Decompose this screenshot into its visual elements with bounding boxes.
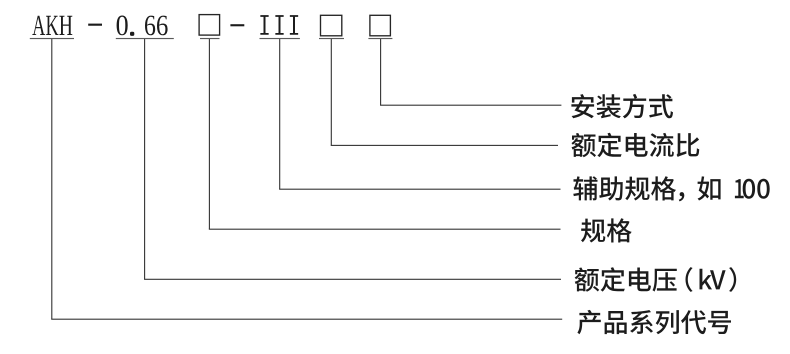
text III glyph I3 — [290, 15, 298, 35]
box 2 (current-ratio placeholder) — [321, 15, 342, 36]
text III glyph I1 — [260, 15, 268, 35]
underline under box 3 — [368, 38, 392, 39]
label text 辅助规格，如 100 — [573, 176, 769, 201]
underline under III — [260, 38, 300, 39]
underline under AKH — [30, 38, 74, 39]
wire horizontal to 安装方式 — [380, 105, 561, 106]
label text 安装方式 — [571, 94, 673, 119]
wire vertical from III — [279, 39, 280, 189]
decimal point of 0.66 — [130, 32, 134, 36]
wire horizontal to 额定电流比 — [331, 145, 558, 146]
label text 额定电流比 — [571, 133, 699, 158]
text AKH letter A — [32, 16, 45, 35]
hyphen between AKH and 0.66 — [88, 24, 102, 26]
wire vertical from AKH — [51, 39, 52, 319]
wire vertical from box 2 — [331, 39, 332, 145]
box 3 (mounting placeholder) — [370, 15, 391, 36]
hyphen between box 1 and III — [230, 24, 244, 26]
text AKH letter K — [46, 16, 58, 35]
wire vertical from box 3 — [380, 39, 381, 105]
box 1 (spec placeholder) — [199, 15, 220, 35]
wire horizontal to 规格 — [209, 229, 561, 230]
label text 产品系列代号 — [577, 310, 731, 334]
wire vertical from box 1 — [209, 39, 210, 229]
wire horizontal to 额定电压 — [144, 279, 561, 280]
text III glyph I2 — [275, 15, 283, 35]
text AKH letter H — [59, 16, 72, 35]
text 0.66 digit 0 — [117, 16, 128, 36]
underline under 0.66 — [116, 38, 174, 39]
text 0.66 digit 6b — [157, 16, 168, 36]
underline under box 1 — [200, 38, 220, 39]
label text 额定电压（kV） — [575, 267, 737, 292]
wire vertical from 0.66 — [144, 39, 145, 279]
label text 规格 — [581, 218, 632, 242]
wire horizontal to 产品系列代号 — [51, 319, 562, 320]
text 0.66 digit 6a — [145, 16, 155, 36]
wire horizontal to 辅助规格 — [279, 189, 560, 190]
underline under box 2 — [319, 38, 344, 39]
